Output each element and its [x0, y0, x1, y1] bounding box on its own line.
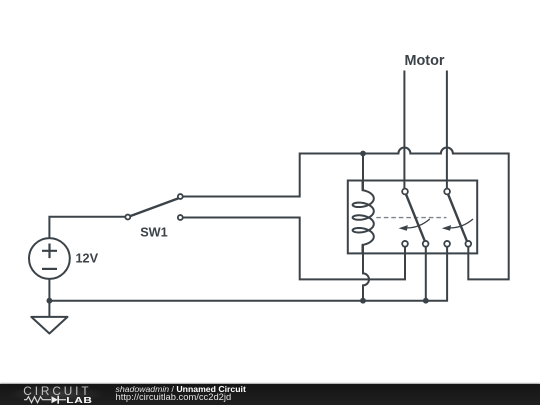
wire: contact throw vertical at x=425.8: [425, 245, 427, 301]
relay contact 1 actuation arrow: [407, 219, 430, 228]
credit text: [116, 385, 246, 403]
junction dot: coil bottom on bottom rail: [360, 298, 366, 304]
wire: motor lead 1: [403, 71, 405, 189]
relay coil: [353, 181, 374, 254]
relay contact 2 actuation arrow: [450, 219, 473, 228]
wire: source bottom to ground: [48, 279, 50, 317]
relay contact 1 lever: [406, 195, 425, 241]
wire: switch bottom throw to relay contact bottom-left throw: [181, 218, 405, 280]
ground: [31, 317, 67, 334]
junction dot: contact throw on bottom rail: [423, 298, 429, 304]
wire: bottom rail from ground node to relay contact throws: [49, 245, 447, 301]
CircuitLab logo resistor-diode row with LAB: [23, 395, 98, 405]
junction dot: coil top on rail: [360, 151, 366, 157]
wire: coil bottom with hop over lower wire down to bottom rail: [363, 245, 369, 301]
wire: coil top from rail into relay box: [362, 154, 364, 191]
wire: switch top throw to top rail with hops over motor leads, down right side to relay contact K1 throw: [181, 148, 509, 280]
CircuitLab logo text CIRCUIT: [23, 386, 91, 397]
svg-text:12V: 12V: [76, 251, 99, 265]
switch SW1 terminal circles: [125, 194, 182, 220]
footer bar: [0, 384, 540, 405]
svg-text:Motor: Motor: [405, 53, 445, 69]
relay contact terminal circles: [402, 189, 471, 247]
svg-text:LAB: LAB: [66, 397, 92, 405]
voltage source V1 12V: [29, 238, 70, 279]
relay contact 2 lever: [448, 195, 467, 241]
wire: source top to switch left terminal: [49, 217, 126, 238]
wire: motor lead 2: [446, 71, 448, 189]
switch SW1 lever: [130, 198, 179, 216]
relay actuation dashed line: [376, 217, 446, 219]
junction dot: ground node at source: [47, 298, 53, 304]
relay box: [348, 181, 477, 254]
svg-text:SW1: SW1: [140, 226, 168, 240]
